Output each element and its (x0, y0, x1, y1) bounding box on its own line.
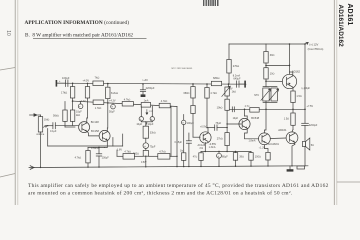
svg-text:4.7kΩ: 4.7kΩ (124, 98, 131, 101)
svg-text:39Ω: 39Ω (270, 54, 275, 57)
svg-text:1kΩ: 1kΩ (76, 114, 81, 117)
resistor 7k on H2 (93, 76, 104, 86)
svg-text:17kΩ: 17kΩ (61, 91, 67, 95)
resistor bottom row x184 (180, 150, 186, 167)
svg-text:10Ω: 10Ω (270, 72, 275, 75)
resistor 27k below trimmer column (217, 128, 229, 153)
svg-text:AD161/AD162: AD161/AD162 (337, 5, 344, 48)
capacitor 10uF electrolytic under H3 (76, 102, 83, 114)
transistor Q4 BC548 (227, 109, 260, 139)
svg-text:0.5W: 0.5W (141, 162, 147, 164)
svg-text:39Ω: 39Ω (239, 155, 244, 158)
capacitor 0.1uF input coupling (47, 123, 79, 133)
wire Q3 emitter to bottom row (204, 143, 206, 152)
svg-text:AC128/01: AC128/01 (268, 143, 280, 146)
svg-text:NTC 2322 640 90001: NTC 2322 640 90001 (172, 68, 194, 70)
transistor AD161 (278, 128, 298, 166)
svg-text:10µF: 10µF (136, 123, 142, 126)
svg-text:50µF: 50µF (109, 111, 115, 114)
svg-text:AD161: AD161 (278, 128, 287, 132)
svg-text:1.5V: 1.5V (149, 111, 154, 113)
capacitor 100uF input (57, 76, 70, 87)
capacitor 50uF electrolytic under H3 (109, 103, 115, 114)
svg-text:/01: /01 (200, 147, 204, 150)
wire rail H3 (73, 101, 177, 106)
capacitor 80uF bottom row (217, 152, 229, 167)
junction dots bottom rail (40, 165, 293, 168)
resistor bias box on H3 (141, 100, 150, 108)
svg-text:100µF: 100µF (102, 156, 110, 159)
svg-text:10µF: 10µF (148, 123, 154, 126)
capacitor 640uF H2 right + terminal (233, 77, 246, 87)
resistor 8.2k column H2-H3 (106, 84, 118, 103)
transistor Q5 AC128/01 (249, 133, 280, 150)
svg-text:10µF: 10µF (233, 117, 239, 120)
svg-text:1mA: 1mA (144, 100, 149, 103)
resistor bottom row x201 (193, 152, 203, 167)
wire supply rail top (229, 43, 305, 45)
wire Q5 emitter to 56 ohm (264, 145, 268, 153)
resistor 1.5 upper (291, 87, 302, 113)
supply column 39 ohm / 10 ohm (264, 44, 290, 87)
svg-text:1.8V: 1.8V (117, 149, 122, 152)
ground terminal arrow left (29, 166, 34, 170)
capacitor 10uF H4 left end (232, 107, 238, 120)
resistor 56k bias under H3 (53, 102, 75, 128)
resistor 17k column H2-H3 (61, 83, 75, 101)
capacitor 75uF driver collector (208, 122, 227, 133)
svg-text:10: 10 (5, 30, 11, 36)
svg-text:BC548: BC548 (251, 116, 259, 120)
svg-text:1.5Ω: 1.5Ω (284, 118, 289, 121)
resistor column x87.5 H2-down (85, 83, 89, 101)
svg-text:1.5Ω: 1.5Ω (296, 95, 301, 98)
resistor on H3 left (93, 100, 104, 105)
svg-text:(+) 12V: (+) 12V (309, 42, 318, 46)
svg-text:100µF: 100µF (62, 76, 70, 80)
trimmer 1k column x227 (217, 84, 237, 128)
svg-text:BC158: BC158 (91, 129, 99, 133)
svg-text:4.7kΩ: 4.7kΩ (159, 150, 166, 153)
transistor Q3 AC128/01 driver (198, 126, 217, 150)
potentiometer 1M volume (36, 115, 49, 167)
resistor 100 bottom row (249, 152, 261, 167)
ground jog box right (297, 166, 305, 169)
svg-text:1kΩ: 1kΩ (232, 90, 237, 93)
svg-text:(Imax=550mA): (Imax=550mA) (308, 48, 324, 51)
resistor 270 supply column (227, 44, 241, 84)
wire Q2 emitter down (105, 140, 108, 147)
svg-text:are mounted on a common heatsi: are mounted on a common heatsink of 200 … (28, 189, 292, 196)
svg-text:680Ω: 680Ω (184, 92, 190, 95)
svg-text:27kΩ: 27kΩ (217, 138, 223, 141)
svg-text:4.7kΩ: 4.7kΩ (161, 100, 168, 103)
wire Q2 collector to H3 (106, 103, 109, 132)
resistor 4.7k bottom-left horizontal (117, 150, 143, 159)
wire Q5 to AD161 base (270, 137, 286, 140)
capacitor bridge 2x10uF (136, 106, 154, 126)
svg-text:8.2kΩ: 8.2kΩ (111, 91, 118, 95)
junction dots H4 (244, 109, 306, 111)
svg-text:10µF: 10µF (76, 110, 82, 113)
svg-text:4.7kΩ: 4.7kΩ (124, 150, 131, 153)
resistor 56 bottom (266, 152, 270, 166)
transistor Q1 BC148 (79, 102, 100, 133)
svg-text:AD161: AD161 (346, 4, 353, 26)
svg-text:B. 8 W amplifier with matched: B. 8 W amplifier with matched pair AD161… (25, 32, 133, 39)
svg-text:80µF: 80µF (222, 155, 228, 158)
resistor 4.7k on H3 (122, 98, 133, 106)
svg-text:5Ω: 5Ω (311, 144, 314, 147)
svg-text:1.7kΩ: 1.7kΩ (95, 107, 102, 110)
wire vertical x177 to ground (176, 107, 177, 167)
svg-text:1MΩ: 1MΩ (44, 119, 49, 122)
wire rail H4 output mid (227, 108, 306, 110)
svg-text:This amplifier can safely be e: This amplifier can safely be employed up… (28, 182, 329, 189)
svg-text:1.3mA: 1.3mA (209, 146, 216, 149)
svg-text:AD162: AD162 (292, 70, 301, 74)
speaker 5 ohm (302, 138, 314, 166)
wire rail H2 (57, 83, 246, 84)
resistor 39 bottom row (233, 152, 244, 167)
svg-text:4.7Ω: 4.7Ω (245, 105, 250, 108)
svg-text:+7.5V: +7.5V (307, 105, 314, 108)
wire feedback lower (47, 125, 123, 152)
resistor 4.7k on H3 right (159, 100, 170, 108)
svg-text:75µF: 75µF (150, 145, 156, 148)
resistor 4.7k bottom-right horizontal (145, 150, 177, 159)
svg-text:APPLICATION INFORMATION (conti: APPLICATION INFORMATION (continued) (25, 19, 130, 26)
svg-text:2200µF: 2200µF (309, 124, 318, 127)
svg-text:33kΩ: 33kΩ (150, 131, 156, 134)
svg-text:4.7kΩ: 4.7kΩ (210, 92, 217, 95)
resistor 4.7 on H4 (245, 105, 260, 112)
svg-text:270Ω: 270Ω (233, 64, 239, 68)
input arrow terminal (30, 113, 41, 117)
junction dots H3 (72, 100, 147, 105)
wire Q1 emitter to Q2 base (87, 131, 99, 136)
capacitor 0.1uF driver (175, 133, 192, 167)
svg-text:≈+3V: ≈+3V (142, 79, 148, 82)
resistor 4.7k column x207 (205, 83, 217, 128)
wire bottom sub-rail (201, 151, 251, 152)
capacitor 100uF driver column (182, 115, 195, 153)
svg-text:0.1µF: 0.1µF (50, 130, 57, 133)
svg-text:4.7kΩ: 4.7kΩ (75, 157, 82, 160)
capacitor 75uF mid column (143, 143, 156, 151)
resistor 680 on H2 (211, 76, 221, 86)
svg-text:640µF: 640µF (233, 77, 241, 80)
output column x305 (302, 43, 314, 123)
svg-text:7kΩ: 7kΩ (95, 76, 100, 80)
svg-text:2200µF: 2200µF (146, 86, 155, 90)
wire Q5 collector to H4 (264, 109, 266, 133)
capacitor 100uF Q2 emitter (96, 147, 109, 167)
svg-text:0.15µF: 0.15µF (175, 141, 183, 144)
thermistor pair NTC (254, 87, 279, 110)
input terminal (56, 80, 58, 87)
svg-text:+4.3V: +4.3V (79, 100, 86, 103)
svg-text:10kΩ: 10kΩ (217, 107, 223, 110)
svg-text:NTC: NTC (254, 94, 259, 97)
svg-text:100Ω: 100Ω (255, 155, 261, 158)
resistor 4.7k Q2 emitter (75, 148, 105, 168)
svg-text:+0.9V: +0.9V (200, 126, 207, 129)
transistor AD162 (282, 43, 300, 89)
transistor Q2 BC158 (91, 129, 110, 141)
capacitor 2200uF at node ~+3V (140, 84, 155, 97)
ground hatch symbol (287, 166, 294, 172)
svg-text:47Ω: 47Ω (193, 156, 198, 159)
svg-text:680Ω: 680Ω (213, 76, 219, 80)
capacitor 2200uF output (302, 123, 318, 140)
svg-text:+4.3V: +4.3V (109, 100, 116, 103)
svg-text:1kΩ: 1kΩ (180, 150, 185, 153)
resistor 680 column x193 (184, 83, 201, 137)
resistor 560 mid column (133, 150, 148, 166)
svg-text:(+)30µF: (+)30µF (302, 87, 311, 90)
svg-text:56kΩ: 56kΩ (53, 115, 59, 118)
resistor 12k bias under H3 (70, 101, 80, 125)
wire vertical x171 (170, 106, 172, 156)
svg-text:volume: volume (36, 133, 45, 136)
wire ground rail bottom (34, 166, 308, 168)
junction dots H2 (72, 83, 230, 85)
resistor 33k mid column (143, 122, 156, 143)
svg-text:+: + (144, 144, 146, 148)
barcode (203, 0, 219, 6)
svg-text:75µF: 75µF (215, 122, 221, 125)
svg-text:BC148: BC148 (91, 120, 99, 124)
node (+)12V supply arrow (305, 42, 308, 44)
svg-text:1.8mA: 1.8mA (249, 140, 256, 143)
resistor 1.5 lower (284, 113, 295, 132)
svg-text:+4.5V: +4.5V (83, 79, 90, 82)
